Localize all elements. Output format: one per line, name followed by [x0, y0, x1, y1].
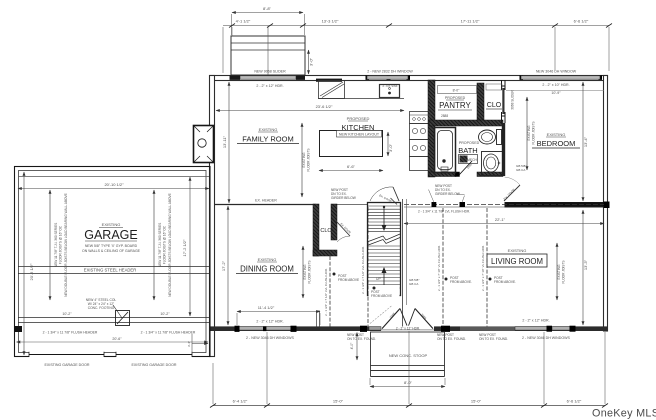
new kitchen layout box [337, 131, 382, 138]
window kitchen 2832 DH [367, 76, 408, 79]
svg-text:GARAGE: GARAGE [84, 228, 138, 242]
existing steel header band [18, 267, 209, 274]
svg-text:FLOOR JOISTS: FLOOR JOISTS [308, 260, 312, 283]
svg-text:FROM ABOVE: FROM ABOVE [338, 278, 359, 282]
garage label [82, 222, 141, 253]
fireplace family room [194, 126, 214, 163]
svg-text:2 - 1 3/4" x 7' 10" VL FLUSH H: 2 - 1 3/4" x 7' 10" VL FLUSH HDR. [481, 245, 485, 291]
svg-text:10'-2": 10'-2" [160, 312, 170, 316]
svg-text:2888: 2888 [441, 114, 448, 118]
svg-text:EX. HEADER: EX. HEADER [255, 199, 277, 203]
island right dim 3'-0" [388, 132, 393, 156]
wire house right wall [604, 76, 608, 332]
svg-text:13'-3": 13'-3" [583, 259, 588, 270]
stairs [367, 203, 401, 296]
svg-text:EXISTING: EXISTING [259, 127, 278, 132]
svg-text:3068: 3068 [389, 311, 396, 319]
wire house top wall [210, 76, 608, 357]
bottom dims dining windows [237, 305, 320, 340]
svg-text:6'-4 1/2": 6'-4 1/2" [233, 399, 248, 404]
svg-text:EXISTING: EXISTING [258, 257, 277, 262]
deck right vertical dim 3'-0" [309, 50, 314, 74]
short diagonal near stair top [391, 198, 398, 205]
svg-text:CONC. FOOTING: CONC. FOOTING [88, 306, 115, 310]
svg-text:17'-2 1/2": 17'-2 1/2" [182, 239, 187, 256]
posts on flush beam [432, 202, 437, 207]
dining room label [236, 257, 298, 274]
svg-text:NEW 5/8" TYPE 'X' GYP. BOARD: NEW 5/8" TYPE 'X' GYP. BOARD [85, 244, 138, 248]
pantry label & shelf [429, 86, 477, 119]
living joists [557, 243, 566, 300]
kitchen sink [380, 85, 400, 98]
svg-text:MECH: MECH [467, 158, 477, 162]
french doors [370, 306, 433, 331]
garage lower flush header band [14, 312, 209, 335]
svg-text:PROPOSED: PROPOSED [445, 96, 466, 100]
garage joist arrows/text column right [154, 190, 172, 300]
stair up arrow (bottom flight) [383, 272, 385, 292]
ex. header line [214, 199, 367, 205]
svg-text:ON WALLS & CEILING OF GARAGE: ON WALLS & CEILING OF GARAGE [82, 249, 141, 253]
family room vertical dim 13'-11" [222, 82, 229, 203]
svg-text:EXISTING: EXISTING [303, 264, 307, 279]
beam dashed lines dining [324, 207, 368, 327]
steel column w/ footing [86, 298, 130, 341]
svg-text:2 - NEW 3046 DH WINDOWS: 2 - NEW 3046 DH WINDOWS [246, 336, 295, 340]
svg-text:2 - 2" x 12" HDR.: 2 - 2" x 12" HDR. [256, 320, 283, 324]
svg-text:17'-11 1/2": 17'-11 1/2" [461, 19, 480, 24]
svg-text:15'-0": 15'-0" [333, 399, 344, 404]
svg-text:20'-10 1/2": 20'-10 1/2" [104, 182, 124, 187]
svg-text:2 - 1 3/4" x 7' 10" VL FLUSH H: 2 - 1 3/4" x 7' 10" VL FLUSH HDR. [437, 245, 441, 291]
svg-text:NEW 3046 DH WINDOW: NEW 3046 DH WINDOW [536, 70, 577, 74]
svg-text:2'-6": 2'-6" [429, 112, 433, 118]
dining joists [303, 246, 312, 298]
bath label [458, 141, 479, 155]
top main dimension chain [223, 19, 612, 74]
svg-text:FLOOR JOISTS: FLOOR JOISTS [562, 260, 566, 283]
kitchen dim 23'-6" [216, 104, 404, 111]
svg-text:LIVING ROOM: LIVING ROOM [491, 257, 543, 266]
garage right vertical dimension 17'-2" [182, 177, 190, 316]
svg-text:EXISTING: EXISTING [508, 248, 527, 253]
window slider top-left (gray band) [230, 75, 603, 80]
svg-text:CLO: CLO [320, 228, 332, 234]
corner cabinet [319, 81, 345, 99]
top dimension 8'-8" [232, 6, 305, 35]
svg-text:FLOOR JOISTS: FLOOR JOISTS [532, 121, 536, 144]
svg-text:2 - 1 3/4" x 11 7/8" FLUSH HEA: 2 - 1 3/4" x 11 7/8" FLUSH HEADER [43, 331, 98, 335]
bedroom door swing [503, 177, 520, 201]
svg-text:ON TO EX. FOUND.: ON TO EX. FOUND. [479, 337, 508, 341]
svg-text:3'-0": 3'-0" [309, 57, 314, 66]
kitchen label [339, 116, 377, 132]
window living 3046 DH windows [515, 327, 547, 330]
svg-text:GB CA: GB CA [516, 168, 525, 172]
svg-text:EXISTING: EXISTING [527, 125, 531, 140]
svg-text:PROPOSED: PROPOSED [459, 141, 480, 145]
stair break line [367, 234, 400, 242]
post from above labels [333, 273, 517, 300]
bedroom joists arrows [527, 97, 536, 170]
svg-text:NEW KITCHEN LAYOUT: NEW KITCHEN LAYOUT [339, 133, 380, 137]
family room label [237, 127, 299, 144]
svg-text:EX. DOOR: EX. DOOR [503, 187, 517, 201]
kitchen range column [410, 112, 430, 171]
living room top beam [404, 205, 604, 214]
window bedroom 3046 DH [521, 76, 600, 79]
bedroom vertical dim 13'-4" [583, 82, 588, 201]
svg-text:EXISTING: EXISTING [557, 264, 561, 279]
svg-text:20'-6 1/2": 20'-6 1/2" [29, 263, 34, 280]
svg-text:UP: UP [376, 277, 381, 281]
label bedroom window [506, 70, 604, 96]
svg-text:3068: 3068 [420, 313, 427, 321]
svg-text:2 - 1 3/4" x 7 1/2" LVL FLUSH: 2 - 1 3/4" x 7 1/2" LVL FLUSH HDR. [324, 268, 328, 316]
svg-text:8'-0": 8'-0" [404, 380, 413, 385]
svg-text:EXISTING GARAGE DOOR: EXISTING GARAGE DOOR [132, 363, 177, 367]
dining closet hatched [313, 204, 352, 256]
bedroom west thin wall below clo [502, 123, 505, 176]
family room joist arrows [302, 123, 311, 197]
svg-text:2 - NEW 2832 DH WINDOW: 2 - NEW 2832 DH WINDOW [367, 70, 413, 74]
stair right wall [402, 199, 404, 327]
svg-text:13'-11": 13'-11" [222, 135, 227, 148]
svg-text:NEW 11 7/8" T.J.I. 360 SERIES: NEW 11 7/8" T.J.I. 360 SERIES [54, 223, 58, 267]
svg-text:11'-4 1/2": 11'-4 1/2" [258, 305, 275, 310]
svg-text:GIRDER BELOW: GIRDER BELOW [331, 196, 356, 200]
clo upper label [486, 84, 502, 109]
svg-text:PROPOSED: PROPOSED [347, 116, 370, 121]
svg-text:2 - NEW 3046 DH WINDOWS: 2 - NEW 3046 DH WINDOWS [522, 336, 571, 340]
svg-text:6'-6 1/2": 6'-6 1/2" [574, 19, 589, 24]
stoop [371, 332, 445, 377]
bath vanity sink [482, 152, 503, 176]
pantry/clo/bath hatched walls [428, 80, 503, 177]
living beams vertical [437, 208, 487, 327]
wire house left wall [210, 76, 215, 357]
svg-text:EXISTING GARAGE DOOR: EXISTING GARAGE DOOR [45, 363, 90, 367]
svg-text:2 - 1 3/4" x 11 7/8" LVL FLUSH: 2 - 1 3/4" x 11 7/8" LVL FLUSH HDR. [418, 210, 470, 214]
svg-text:EXISTING: EXISTING [547, 132, 566, 137]
garage top dimension 20'-10" [18, 182, 209, 189]
deck top-left [231, 27, 305, 75]
svg-text:6'-6 1/2": 6'-6 1/2" [567, 399, 582, 404]
svg-text:OneKey MLS: OneKey MLS [592, 408, 656, 420]
svg-text:FAMILY ROOM: FAMILY ROOM [242, 135, 293, 144]
svg-text:NEW 9068 SLIDER: NEW 9068 SLIDER [254, 70, 286, 74]
svg-text:2 - 2" x 10" HDR.: 2 - 2" x 10" HDR. [542, 83, 569, 87]
wall shaded segment right of doors [460, 327, 515, 331]
22'-1" dim [404, 217, 604, 224]
stair top door swing [370, 187, 399, 203]
svg-text:DINING ROOM: DINING ROOM [240, 265, 294, 274]
bedroom label [532, 132, 580, 148]
svg-text:17'-2": 17'-2" [221, 260, 226, 271]
svg-text:NEW DOUBLE FLOOR JOISTS BELOW: NEW DOUBLE FLOOR JOISTS BELOW LOAD BEARI… [64, 193, 68, 297]
svg-text:8'-8": 8'-8" [263, 6, 272, 11]
svg-text:3'-0": 3'-0" [388, 143, 393, 152]
svg-text:NEW CONC. STOOP: NEW CONC. STOOP [389, 353, 428, 358]
svg-text:FLOOR JOISTS: FLOOR JOISTS [307, 148, 311, 171]
small code labels [409, 164, 526, 286]
svg-text:GB CA: GB CA [409, 282, 418, 286]
kitchen island [320, 131, 383, 157]
svg-text:8'-0": 8'-0" [453, 89, 461, 93]
living vertical dim 13'-3" [583, 210, 588, 325]
dim jog bracket at x320 [317, 311, 320, 328]
svg-text:NEW 11 7/8" T.J.I. 360 SERIES: NEW 11 7/8" T.J.I. 360 SERIES [158, 223, 162, 267]
bath toilet [479, 130, 502, 145]
svg-text:2 - 2" x 12" HDR.: 2 - 2" x 12" HDR. [256, 84, 283, 88]
svg-text:4'-1 1/2": 4'-1 1/2" [236, 19, 251, 24]
svg-text:4'-0": 4'-0" [350, 342, 354, 350]
svg-text:FROM ABOVE.: FROM ABOVE. [494, 280, 516, 284]
leader lines to posts [429, 190, 435, 203]
svg-text:NEW DOUBLE FLOOR JOISTS BELOW: NEW DOUBLE FLOOR JOISTS BELOW LOAD BEARI… [168, 193, 172, 297]
bedroom wall bottom [505, 203, 608, 208]
svg-text:ON TO EX. FOUND.: ON TO EX. FOUND. [437, 337, 466, 341]
svg-text:EX. DOOR: EX. DOOR [339, 222, 352, 235]
svg-text:CLO: CLO [487, 102, 502, 109]
header dark segment over corner cabinet [316, 79, 342, 82]
svg-text:2 - 2" x 12" HDR.: 2 - 2" x 12" HDR. [396, 326, 420, 330]
window sidelight left of doors [369, 327, 381, 330]
garage bottom wall door openings [29, 352, 104, 358]
4'-0" dim [350, 333, 357, 361]
svg-text:FROM ABOVE.: FROM ABOVE. [450, 280, 472, 284]
svg-text:3068 SLIDER: 3068 SLIDER [511, 90, 515, 110]
svg-text:FLOOR JOISTS @ 16" OC: FLOOR JOISTS @ 16" OC [163, 225, 167, 264]
garage inner top line [18, 176, 209, 178]
kitchen counter top [318, 81, 404, 99]
garage outer walls [15, 167, 211, 358]
existing garage door labels [17, 334, 209, 367]
svg-text:10'-9": 10'-9" [551, 91, 561, 95]
svg-text:EXISTING: EXISTING [102, 222, 121, 227]
garage joist arrows/text column left [50, 190, 68, 300]
svg-text:EXISTING: EXISTING [302, 152, 306, 167]
bath door leaf [459, 161, 472, 175]
mech box [459, 155, 478, 164]
8'-0" dim [370, 378, 445, 387]
clo slider door wall [502, 80, 506, 176]
stair down arrow (top flight) [383, 207, 385, 226]
svg-text:13'-3 1/2": 13'-3 1/2" [322, 19, 339, 24]
garage left vertical dimension 20'-6" [24, 172, 34, 355]
living room label [487, 248, 547, 267]
svg-text:2 - 2" x 12" HDR.: 2 - 2" x 12" HDR. [522, 319, 549, 323]
svg-text:20'-6": 20'-6" [112, 337, 122, 341]
svg-text:FROM ABOVE: FROM ABOVE [371, 294, 392, 298]
svg-text:ON TO EX. FOUND.: ON TO EX. FOUND. [347, 337, 376, 341]
svg-text:6'-6": 6'-6" [347, 164, 356, 169]
svg-text:2 - KIT. SINK: 2 - KIT. SINK [383, 84, 398, 88]
dining vertical dim 17'-2" [221, 206, 228, 325]
svg-text:2 - 1 3/4" x 7 1/2" LVL FLUSH: 2 - 1 3/4" x 7 1/2" LVL FLUSH HDR. [361, 246, 365, 294]
svg-text:23'-6 1/2": 23'-6 1/2" [316, 104, 333, 109]
new post girder labels [331, 184, 465, 200]
post markers on bottom wall [235, 326, 240, 332]
svg-text:15'-0": 15'-0" [471, 399, 482, 404]
wire house bottom wall [210, 326, 381, 331]
new post found labels bottom [347, 333, 508, 341]
svg-text:13'-4": 13'-4" [583, 136, 588, 147]
living window labels [522, 319, 571, 341]
svg-text:BATH: BATH [458, 146, 477, 155]
svg-text:PANTRY: PANTRY [439, 101, 471, 110]
svg-text:EXISTING STEEL HEADER: EXISTING STEEL HEADER [84, 268, 136, 273]
island bottom dim 6'-6" [319, 164, 383, 171]
label new 9068 slider [254, 70, 286, 89]
window dining 3046 DH windows (bottom) [235, 311, 576, 332]
hall diagonal walls [391, 161, 474, 327]
bottom main dimension chain [210, 331, 608, 408]
bath tub [435, 128, 456, 173]
svg-text:BEDROOM: BEDROOM [537, 139, 576, 148]
svg-text:22'-1": 22'-1" [495, 217, 506, 222]
svg-text:FLOOR JOISTS @ 16" OC: FLOOR JOISTS @ 16" OC [59, 225, 63, 264]
svg-text:2 - 1 3/4" x 11 7/8" FLUSH HEA: 2 - 1 3/4" x 11 7/8" FLUSH HEADER [141, 331, 196, 335]
svg-text:10'-2": 10'-2" [62, 312, 72, 316]
